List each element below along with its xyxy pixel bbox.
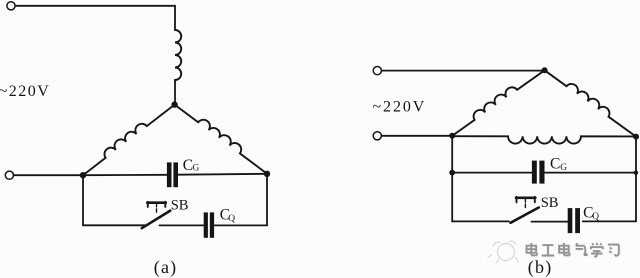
svg-text:~220V: ~220V — [373, 99, 427, 116]
svg-text:Q: Q — [228, 214, 235, 224]
svg-text:~220V: ~220V — [0, 83, 50, 100]
svg-text:(b): (b) — [528, 257, 553, 278]
svg-text:C: C — [550, 156, 560, 173]
svg-text:Q: Q — [592, 212, 599, 222]
svg-text:SB: SB — [171, 198, 189, 214]
svg-text:(a): (a) — [154, 257, 178, 278]
svg-text:SB: SB — [541, 195, 559, 211]
svg-text:G: G — [193, 164, 200, 174]
svg-text:G: G — [560, 163, 567, 173]
